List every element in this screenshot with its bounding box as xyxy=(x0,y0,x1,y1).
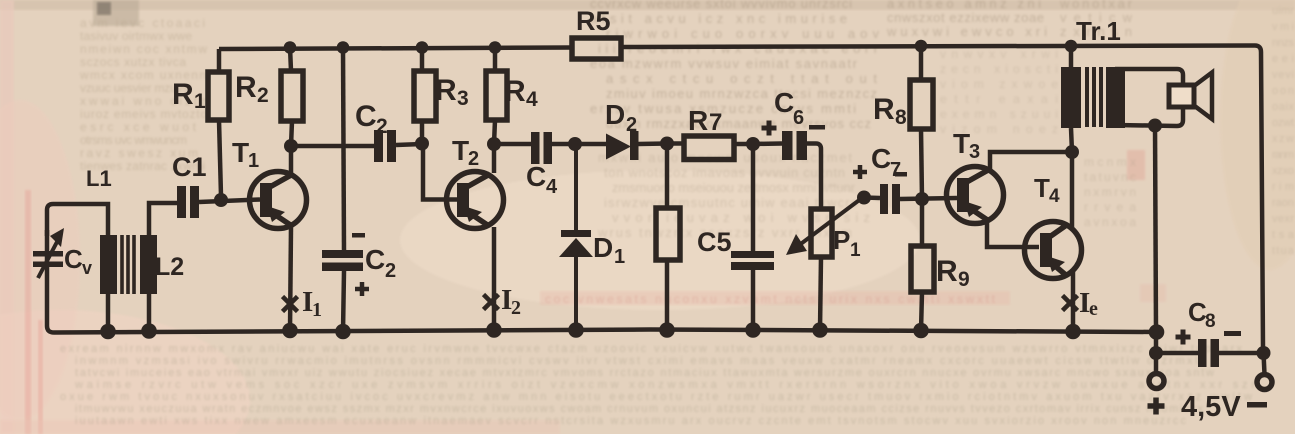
inductor L1 (winding) xyxy=(100,235,117,294)
diode D1 xyxy=(559,144,593,330)
battery minus sign xyxy=(1247,402,1267,408)
node R6-ground xyxy=(659,322,675,338)
svg-text:9: 9 xyxy=(958,268,970,291)
wire R8 bottom xyxy=(921,129,922,199)
node T4 emitter-ground xyxy=(1065,324,1081,340)
node speaker return xyxy=(1148,119,1162,133)
svg-text:avm ievc ctoaaci: avm ievc ctoaaci xyxy=(80,16,205,30)
svg-text:R: R xyxy=(172,78,194,111)
battery minus terminal xyxy=(1257,375,1272,390)
wire C8 to minus node xyxy=(1219,351,1263,356)
wire L2 top to C1 xyxy=(149,203,177,235)
svg-text:nmeiwn coc xntmw: nmeiwn coc xntmw xyxy=(80,42,207,56)
wire R3 top xyxy=(420,47,425,71)
svg-text:cnwszxot ezzixeww zoae: cnwszxot ezzixeww zoae xyxy=(887,10,1044,25)
svg-text:e: e xyxy=(1089,298,1098,320)
node decoupling top xyxy=(337,41,350,54)
wire T1 collector xyxy=(289,146,294,173)
wire C2 electrolytic bottom xyxy=(343,271,344,332)
node R3 bottom / T2 base xyxy=(415,137,429,151)
wire C4 to D1 node xyxy=(552,142,575,147)
wire R4 top xyxy=(493,47,498,71)
wire node to T2 base xyxy=(423,143,457,200)
svg-text:inwmnm vzmsasi ivo swivru rrwa: inwmnm vzmsasi ivo swivru rrwacmio imutn… xyxy=(75,355,1198,367)
svg-text:exream nirnnw mwxomx rav aniuc: exream nirnnw mwxomx rav aniucwu wai xat… xyxy=(60,343,1242,355)
svg-text:uuxm rmzzxac oxmaanwe mevrsvos: uuxm rmzzxac oxmaanwe mevrsvos ccz xyxy=(606,116,871,131)
wire minus terminal lead xyxy=(1264,353,1265,374)
wire L1 bottom xyxy=(106,294,111,331)
capacitor C7 electrolytic xyxy=(880,184,900,214)
wire C5 top xyxy=(751,144,756,252)
svg-text:R: R xyxy=(435,74,457,107)
svg-text:otrsms uvc wmwuncm: otrsms uvc wmwuncm xyxy=(80,133,187,147)
svg-text:eei: eei xyxy=(1272,53,1294,65)
svg-text:uimr: uimr xyxy=(1272,5,1294,17)
polarity C6 minus xyxy=(809,125,825,130)
wire to battery plus node xyxy=(1154,332,1159,353)
svg-text:Tr.1: Tr.1 xyxy=(1076,16,1121,46)
svg-text:3: 3 xyxy=(457,87,469,110)
node battery minus xyxy=(1257,346,1271,360)
wire R9 bottom xyxy=(921,292,922,331)
svg-text:8: 8 xyxy=(1205,311,1216,332)
wire T4 emitter xyxy=(1071,272,1076,332)
svg-text:nnzs: nnzs xyxy=(1272,37,1295,49)
wire L2 bottom xyxy=(147,294,152,331)
wire R1 bottom xyxy=(219,120,221,196)
svg-text:raon: raon xyxy=(1272,197,1294,209)
svg-text:T: T xyxy=(953,128,970,159)
svg-text:R: R xyxy=(504,75,526,108)
resistor R9 xyxy=(911,246,934,292)
wire C1 to T1 base xyxy=(199,200,260,203)
wire R6 bottom xyxy=(665,260,670,330)
svg-text:zmiuv imoeu mrnzwzca ttccsi me: zmiuv imoeu mrnzwzca ttccsi meznzcz xyxy=(606,86,877,101)
schematic ink xyxy=(33,38,1272,390)
wire C6 to P1 top xyxy=(807,144,821,210)
svg-text:1: 1 xyxy=(194,90,206,113)
wire speaker return down xyxy=(1155,125,1156,332)
wire P1 bottom xyxy=(820,257,821,330)
svg-text:oxue rwm tvouc nxuxsonuv rxsat: oxue rwm tvouc nxuxsonuv rxsatciuu ivcoc… xyxy=(60,391,1252,403)
node D1 top xyxy=(568,137,582,151)
measuring point Ie xyxy=(1063,296,1078,311)
resistor R7 xyxy=(684,136,734,160)
svg-text:1: 1 xyxy=(248,150,259,172)
svg-text:D: D xyxy=(593,232,613,263)
wire tank top left xyxy=(47,204,108,236)
wire T2 collector to C4 xyxy=(494,142,531,147)
polarity C8 minus xyxy=(1224,331,1241,336)
potentiometer P1 xyxy=(786,198,862,257)
wire R1 top xyxy=(217,49,222,72)
svg-text:T: T xyxy=(1034,173,1050,203)
wire R6 top xyxy=(665,143,670,208)
svg-text:v: v xyxy=(82,258,92,278)
svg-text:3: 3 xyxy=(969,141,980,163)
wire bottom rail xyxy=(47,230,1157,333)
loudspeaker xyxy=(1169,73,1212,120)
svg-text:4: 4 xyxy=(526,88,538,111)
svg-text:6: 6 xyxy=(793,107,804,129)
wire top rail right segment xyxy=(621,46,1263,348)
svg-text:R5: R5 xyxy=(576,6,611,36)
svg-text:zecn xioscti: zecn xioscti xyxy=(940,62,1058,76)
svg-text:ttua: ttua xyxy=(1272,245,1295,257)
capacitor C5 xyxy=(731,251,774,270)
wire secondary to speaker loop xyxy=(1115,69,1183,126)
svg-text:8: 8 xyxy=(895,106,907,129)
svg-text:1: 1 xyxy=(312,299,322,321)
wire D2 to R6 node xyxy=(638,141,667,146)
polarity C2 plus xyxy=(355,282,369,296)
node R6 top xyxy=(660,137,674,151)
svg-text:ton wnotscoz imavoas uvvvuin c: ton wnotscoz imavoas uvvvuin cuzntn xyxy=(604,165,845,180)
wire T1 emitter xyxy=(290,227,291,331)
wire Tr.1 primary top xyxy=(1069,46,1074,68)
node battery plus xyxy=(1149,346,1163,360)
transformer Tr.1 core lines xyxy=(1087,67,1101,127)
wire R7 to C5 node xyxy=(734,142,753,147)
node T1 emitter-ground xyxy=(282,323,298,339)
node T2 collector xyxy=(487,137,501,151)
svg-text:1: 1 xyxy=(850,240,861,261)
wire Tr.1 primary bottom xyxy=(1071,128,1072,152)
svg-text:4: 4 xyxy=(546,176,558,198)
svg-text:D: D xyxy=(605,99,625,130)
node R2 top xyxy=(284,41,297,54)
wire R4 bottom xyxy=(494,120,495,144)
svg-text:P: P xyxy=(833,225,850,255)
transformer Tr.1 secondary winding xyxy=(1106,67,1125,128)
inductor L2 (winding) xyxy=(140,235,157,294)
svg-text:riwrwoi cuo oorxv uuu aov: riwrwoi cuo oorxv uuu aov xyxy=(606,26,880,41)
wire T3 collector xyxy=(990,152,1071,169)
svg-text:2: 2 xyxy=(257,84,269,107)
polarity C6 plus xyxy=(762,121,777,136)
battery plus terminal xyxy=(1149,374,1164,389)
transformer Tr.1 primary winding xyxy=(1061,67,1081,128)
svg-text:xzxo: xzxo xyxy=(1272,165,1294,177)
node T2 emitter-ground xyxy=(486,322,502,338)
wire R2 bottom xyxy=(291,121,292,146)
transistor T3 xyxy=(947,167,1004,224)
svg-text:oon: oon xyxy=(1272,85,1294,97)
resistor R6 (unlabelled) xyxy=(656,208,680,260)
svg-text:C: C xyxy=(365,244,385,275)
node ground rail end xyxy=(1149,324,1165,340)
svg-text:4,5V: 4,5V xyxy=(1181,391,1241,423)
node R8/R9/T3 base xyxy=(915,192,929,206)
svg-text:R: R xyxy=(235,71,257,104)
svg-text:4: 4 xyxy=(1049,186,1060,207)
transistor T2 xyxy=(447,172,504,229)
node C2-ground xyxy=(335,324,351,340)
capacitor C1 xyxy=(177,186,199,218)
node Tr.1 primary top xyxy=(1065,40,1078,53)
capacitor C2 electrolytic xyxy=(322,250,363,271)
svg-text:ozwt: ozwt xyxy=(1272,117,1294,129)
wire top rail to C2 electrolytic xyxy=(343,47,344,251)
wire T1 collector to C2 xyxy=(291,144,374,149)
wire R2 top xyxy=(290,47,291,71)
polarity C8 plus xyxy=(1176,330,1191,345)
svg-text:xzw: xzw xyxy=(1272,133,1294,145)
svg-text:sczocs xutzx tivca: sczocs xutzx tivca xyxy=(80,55,186,69)
node P1 wiper xyxy=(857,191,871,205)
wire T2 collector xyxy=(492,144,497,173)
svg-text:7: 7 xyxy=(890,159,901,181)
polarity C7 minus xyxy=(895,172,907,177)
wire top rail left segment xyxy=(219,48,572,50)
svg-text:C: C xyxy=(526,161,546,192)
svg-text:2: 2 xyxy=(385,260,396,282)
node T1 collector xyxy=(284,139,298,153)
node Tr.1 / T3 / T4 collectors xyxy=(1065,145,1079,159)
svg-text:R: R xyxy=(873,93,895,126)
svg-text:L1: L1 xyxy=(86,166,112,191)
transformer core lines L1/L2 xyxy=(122,235,134,294)
node base T1 / R1 xyxy=(214,193,228,207)
node P1-ground xyxy=(812,322,828,338)
svg-text:2: 2 xyxy=(376,115,388,138)
resistor R2 xyxy=(281,71,303,121)
capacitor C8 electrolytic xyxy=(1198,339,1219,367)
svg-text:vmi: vmi xyxy=(1272,21,1294,33)
svg-text:2: 2 xyxy=(468,148,479,170)
wire R3 bottom xyxy=(420,121,425,144)
svg-text:ccvrxcw weeurse sxtoi wvvivmo: ccvrxcw weeurse sxtoi wvvivmo unrzsrci xyxy=(590,0,852,11)
wire C5 bottom xyxy=(751,270,756,330)
wire C5 node to C6 xyxy=(753,141,782,146)
wire C7 to T3 base xyxy=(900,198,957,199)
wire wiper to C7 xyxy=(864,195,880,200)
svg-text:R: R xyxy=(936,255,958,288)
svg-text:C: C xyxy=(774,87,794,118)
capacitor C6 electrolytic xyxy=(782,131,807,160)
node C5-ground xyxy=(745,322,761,338)
svg-text:2: 2 xyxy=(626,114,637,136)
svg-text:vexr: vexr xyxy=(1272,213,1294,225)
svg-text:C: C xyxy=(871,143,891,174)
svg-text:itmuwvwu xeuczuua wratn eczmnv: itmuwvwu xeuczuua wratn eczmnvoe ewsz ss… xyxy=(75,403,1204,415)
wire plus node to C8 xyxy=(1156,351,1198,356)
measuring point I1 xyxy=(283,297,298,312)
wire plus terminal lead xyxy=(1154,353,1159,373)
node L1-ground xyxy=(100,324,116,340)
node R9-ground xyxy=(913,323,929,339)
wire R8 top xyxy=(919,46,924,80)
wire R9 top xyxy=(920,199,925,246)
svg-text:tasivuv oirtmwx wwe: tasivuv oirtmwx wwe xyxy=(80,29,192,43)
node R8 top xyxy=(915,40,928,53)
svg-text:C: C xyxy=(355,100,377,133)
battery plus sign xyxy=(1148,398,1165,415)
svg-text:C5: C5 xyxy=(697,227,732,257)
diode D2 xyxy=(606,131,639,160)
node R3 top xyxy=(416,41,429,54)
svg-text:oaix: oaix xyxy=(1272,101,1295,113)
node R4 top xyxy=(489,41,502,54)
resistor R8 xyxy=(910,80,933,129)
node C5 top xyxy=(746,137,760,151)
svg-text:eoa mzwwrm vvwsuv eimiat savna: eoa mzwwrm vvwsuv eimiat savnaatr xyxy=(590,56,858,71)
svg-text:L2: L2 xyxy=(155,253,184,281)
resistor R3 xyxy=(414,71,436,121)
capacitor C2 coupling xyxy=(374,130,396,162)
svg-text:T: T xyxy=(452,135,469,166)
resistor R5 xyxy=(572,38,621,59)
node D1-ground xyxy=(568,322,584,338)
polarity C7 plus xyxy=(853,165,867,179)
svg-text:R: R xyxy=(688,105,708,136)
wire T2 emitter xyxy=(492,227,497,330)
transistor T1 xyxy=(250,172,307,229)
capacitor C4 xyxy=(531,132,552,164)
wire T3 emitter to T4 base xyxy=(987,221,1039,247)
svg-text:7: 7 xyxy=(709,109,722,136)
resistor R4 xyxy=(486,71,507,120)
svg-text:vevi: vevi xyxy=(1272,69,1294,81)
wire C2 to R3 node xyxy=(396,144,422,145)
svg-text:C1: C1 xyxy=(172,152,207,182)
svg-text:2: 2 xyxy=(511,297,521,319)
wire D1 node to D2 xyxy=(575,142,607,147)
svg-text:1: 1 xyxy=(614,246,625,268)
node L2-ground xyxy=(141,323,157,339)
transistor T4 xyxy=(1025,222,1082,279)
wire node to R7 xyxy=(667,141,684,146)
variable capacitor Cv xyxy=(33,228,64,278)
wire T4 collector xyxy=(1070,152,1075,227)
resistor R1 xyxy=(208,72,229,120)
polarity C2 minus xyxy=(352,233,365,238)
svg-text:T: T xyxy=(232,137,249,168)
svg-text:C: C xyxy=(64,244,83,274)
svg-text:ranm: ranm xyxy=(1272,149,1294,161)
svg-text:tatvcwi imuceies eao vtrmai vm: tatvcwi imuceies eao vtrmai vmvxr uiz ww… xyxy=(75,367,1214,379)
measuring point I2 xyxy=(484,295,499,310)
